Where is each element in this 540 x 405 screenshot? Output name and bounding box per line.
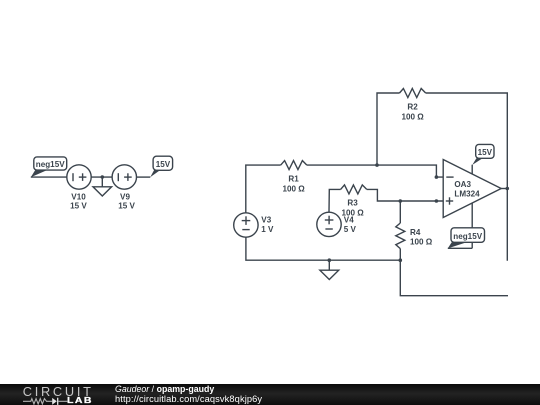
voltage source V3	[234, 213, 274, 237]
node at plus input	[435, 199, 439, 203]
svg-text:5 V: 5 V	[344, 225, 357, 234]
svg-text:V9: V9	[120, 193, 130, 202]
footer url	[115, 394, 262, 404]
node R1/R2 junction	[375, 163, 379, 167]
svg-text:100 Ω: 100 Ω	[341, 208, 364, 217]
voltage source V9	[112, 165, 136, 211]
svg-text:R2: R2	[407, 103, 418, 112]
wire V4 top to R3	[329, 189, 341, 212]
node ground junction	[328, 258, 332, 262]
ground (between V10 and V9)	[93, 177, 112, 196]
svg-text:1 V: 1 V	[261, 225, 274, 234]
resistor R3	[341, 185, 367, 218]
svg-text:neg15V: neg15V	[453, 232, 482, 241]
wire R2 to output rail	[426, 93, 508, 261]
wire V10 to V9	[91, 176, 112, 178]
wire node to op-amp minus input	[377, 165, 443, 177]
svg-text:R1: R1	[288, 175, 299, 184]
svg-text:15V: 15V	[478, 148, 493, 157]
svg-text:15 V: 15 V	[118, 202, 135, 211]
resistor R2	[400, 89, 426, 122]
flag 15V (left supply)	[150, 156, 172, 177]
resistor R4	[396, 201, 433, 260]
wire V9 to 15V flag	[137, 176, 151, 178]
op-amp OA3 LM324	[443, 160, 507, 249]
wire V3 top to R1	[246, 165, 281, 213]
ground (below V4)	[320, 260, 339, 279]
CircuitLab logo squiggle (resistor + diode)	[23, 396, 69, 405]
wire R3 to plus input	[367, 189, 443, 201]
wire R2 branch up	[377, 93, 400, 165]
voltage source V4	[317, 212, 357, 236]
footer title text	[115, 384, 214, 394]
wire neg15V flag to V10	[31, 176, 67, 178]
svg-text:100 Ω: 100 Ω	[410, 237, 433, 246]
wire R4 bottom down and right	[400, 260, 508, 296]
svg-text:100 Ω: 100 Ω	[282, 184, 305, 193]
svg-text:15 V: 15 V	[70, 202, 87, 211]
svg-text:15V: 15V	[156, 160, 171, 169]
wire R1 to node	[307, 164, 377, 166]
flag neg15V (op-amp negative supply)	[448, 228, 485, 249]
svg-text:V10: V10	[71, 193, 86, 202]
CircuitLab logo wordmark	[23, 384, 94, 399]
node R4 bottom junction	[399, 258, 403, 262]
wire ground junction to R4 bottom	[329, 259, 400, 261]
svg-text:R3: R3	[347, 199, 358, 208]
node at minus input	[435, 175, 439, 179]
svg-text:R4: R4	[410, 228, 421, 237]
svg-text:V3: V3	[261, 216, 271, 225]
voltage source V10	[67, 165, 91, 211]
svg-text:100 Ω: 100 Ω	[401, 112, 424, 121]
wire V3 bottom to ground rail	[246, 237, 329, 260]
svg-text:OA3: OA3	[454, 180, 471, 189]
flag 15V (op-amp positive supply)	[472, 144, 494, 165]
svg-text:LM324: LM324	[454, 190, 480, 199]
node R4 top	[399, 199, 403, 203]
flag neg15V (left supply)	[31, 157, 67, 177]
svg-text:neg15V: neg15V	[36, 160, 65, 169]
footer bar	[0, 384, 540, 405]
resistor R1	[281, 161, 307, 194]
node at op-amp output	[506, 187, 510, 191]
node junction between V10 and V9	[101, 175, 105, 179]
